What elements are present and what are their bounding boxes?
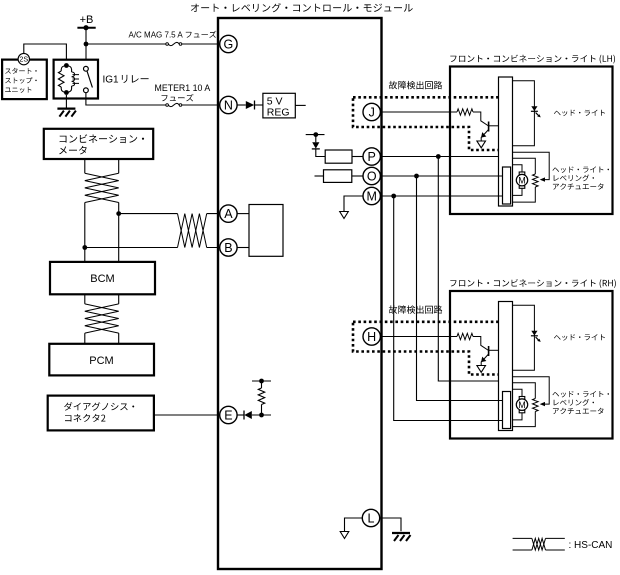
twisted pair (BCM-PCM CAN) (85, 304, 119, 333)
wire R3 to terminal O (352, 175, 363, 177)
svg-text:+B: +B (80, 14, 94, 26)
wire regulator output stub (295, 104, 305, 106)
twisted pair (meter-BCM CAN) (85, 173, 119, 202)
wire diode D1 to regulator box (255, 104, 263, 106)
terminal E (K-line) (220, 406, 237, 423)
wire diode D3 to resistor R2 (316, 149, 325, 157)
terminal B (CAN-L) (220, 239, 237, 256)
wire O to RH actuator (417, 176, 503, 401)
front combination light (LH) assembly (353, 67, 613, 215)
svg-text:O: O (367, 169, 377, 183)
svg-text:H: H (367, 330, 376, 344)
front combination light housing box (450, 67, 613, 215)
terminal G (battery input) (220, 35, 237, 52)
potentiometer loop wiring (513, 158, 536, 202)
relay IG1 box (54, 60, 98, 99)
BCM box (50, 262, 155, 294)
diagnosis connector 2 box (48, 396, 154, 431)
terminal N (ignition input) (220, 96, 237, 113)
node relay coil top (junction dot) (64, 63, 69, 68)
lamp connector strip (499, 77, 513, 206)
relay coil resistor element (58, 71, 64, 87)
wire L to signal ground (345, 518, 363, 532)
wire relay switch to METER1 fuse to terminal N (86, 93, 220, 105)
svg-text:: HS-CAN: : HS-CAN (569, 540, 613, 551)
fault detection dotted outline (353, 97, 504, 150)
relay IG1 switch blade (87, 71, 92, 88)
svg-text:BCM: BCM (90, 273, 114, 285)
label: actuator label line3 アクチュエータ (553, 183, 604, 189)
label: headlight label ヘッド・ライト (554, 110, 605, 117)
wire P to LH lamp (380, 156, 498, 158)
label: fault detection circuit label 故障検出回路 (389, 81, 442, 89)
power +B terminal bar (77, 27, 95, 29)
svg-text:N: N (224, 98, 233, 112)
wire diode D2 to node (252, 414, 271, 416)
twisted pair (to module A/B) (178, 214, 207, 248)
actuator connector block (503, 167, 511, 204)
label: actuator label line1 ヘッド・ライト・ (553, 166, 610, 173)
svg-text:REG: REG (267, 106, 290, 118)
relay coil inductor element (72, 72, 79, 86)
resistor R2 (box style, P) (325, 150, 352, 163)
label: fuse F2 label フューズ (162, 94, 194, 102)
node M branch (junction dot) (391, 194, 396, 199)
label: actuator label line2 レベリング・ (554, 175, 594, 182)
node CAN-L tap (junction dot) (82, 245, 87, 250)
node P branch (junction dot) (436, 154, 441, 159)
front combination light (RH) assembly (same internals as LH) (353, 291, 613, 439)
svg-text:P: P (368, 150, 376, 164)
label: front combination light RH label (450, 279, 616, 288)
label: start-stop unit label line2 ストップ・ (5, 77, 37, 83)
label: start-stop unit label line3 ユニット (5, 87, 31, 93)
label: fuse F1 label フューズ (186, 31, 217, 38)
fuse METER1 10A F2 (166, 103, 182, 106)
wire M to LH actuator (380, 195, 502, 197)
headlight lamp loop wiring (513, 81, 535, 146)
wire CAN to terminal B (85, 247, 220, 249)
ground module chassis ground G2 (chassis 777) (392, 533, 411, 541)
node +B branch to G (junction dot) (84, 42, 89, 47)
node CAN-H tap (junction dot) (116, 211, 121, 216)
terminal J (headlight LH detect) (363, 103, 380, 120)
relay IG1 coil capsule (61, 66, 71, 93)
motor M1 (516, 174, 527, 185)
svg-text:G: G (224, 37, 234, 51)
svg-text:A: A (224, 207, 233, 221)
wire J/H to base resistor (380, 112, 488, 126)
diode D3 (P drive, pointing down) (312, 142, 320, 149)
wire meter to braid rails (85, 159, 119, 262)
wiper feedback wire (513, 152, 550, 179)
label: combination meter label line1 コンビネーション・ (60, 134, 145, 143)
wire B to CAN block (237, 247, 249, 249)
wire stub to resistor R3 (315, 175, 324, 177)
wire O to LH actuator (380, 175, 502, 177)
motor M1 brushes (519, 172, 525, 188)
label: start-stop unit label line1 スタート・ (5, 68, 37, 74)
label: diagnosis box label line2 コネクタ2 (65, 414, 105, 422)
label: diagnosis box label line1 ダイアグノシス・ (64, 402, 134, 411)
wire rail to diode D3 (315, 135, 317, 143)
motor M1 wiring top (513, 165, 523, 196)
wire M to RH actuator (394, 196, 503, 421)
svg-text:B: B (224, 241, 232, 255)
connector 2S circle (18, 53, 29, 64)
wire N to regulator (237, 104, 246, 106)
ground relay ground G1 (chassis 777) (57, 109, 76, 117)
wire P to RH lamp (438, 157, 498, 382)
resistor R1 (E pull-up) (258, 388, 264, 405)
diode D1 (series after N) (246, 101, 255, 110)
label: relay label リレー (122, 75, 149, 83)
wire BCM to braid2 rails (85, 294, 119, 344)
CAN transceiver block (unlabeled box) (249, 205, 283, 257)
terminal M (actuator feedback M) (363, 187, 380, 204)
wiper arrowhead (540, 177, 545, 181)
wire relay coil to ground (65, 95, 67, 108)
regulator U2 5V REG box (263, 93, 295, 118)
wire +B vertical feed (85, 28, 87, 67)
wire E to diode D2 (237, 414, 244, 416)
wire P rail (306, 134, 325, 136)
wire E pull-up rail (252, 380, 271, 382)
wire diagnosis to terminal E (154, 414, 220, 416)
svg-text:M: M (366, 189, 376, 203)
fuse A/C MAG 7.5A F1 (166, 42, 182, 45)
node +B terminal (junction dot) (83, 25, 88, 30)
svg-text:METER1 10 A: METER1 10 A (155, 83, 211, 93)
node E pull-up node (junction dot) (259, 413, 264, 418)
potentiometer resistor element (533, 174, 539, 187)
diode D2 (at E, cathode left) (244, 411, 252, 420)
wire M to signal ground (344, 196, 363, 212)
svg-text:E: E (224, 408, 232, 422)
auto-leveling control module U1 (main box) (218, 18, 382, 569)
resistor R-base (457, 109, 473, 115)
terminal O (actuator drive O) (363, 167, 380, 184)
wire A to CAN block (237, 213, 249, 215)
wire CAN to terminal A (119, 213, 220, 215)
ground M signal ground (open triangle) (340, 212, 349, 219)
start-stop unit box (2, 60, 47, 100)
wire pull-up resistor R1 leads (261, 381, 263, 415)
label: front combination light LH label (450, 55, 615, 64)
svg-text:A/C MAG 7.5 A: A/C MAG 7.5 A (129, 31, 184, 40)
svg-text:L: L (368, 511, 375, 525)
svg-text:M: M (518, 175, 526, 185)
PCM box (49, 344, 154, 376)
svg-text:2S: 2S (19, 55, 28, 64)
node O branch (junction dot) (414, 174, 419, 179)
wire L to chassis ground (380, 518, 401, 531)
svg-text:PCM: PCM (89, 355, 113, 367)
node P rail node (junction dot) (313, 132, 318, 137)
node relay coil bottom (junction dot) (64, 90, 69, 95)
ground L signal ground (open triangle) (340, 532, 349, 539)
terminal L (module ground) (362, 509, 379, 526)
terminal A (CAN-H) (220, 205, 237, 222)
wire R2 to terminal P (352, 156, 363, 158)
transistor Q1 (481, 122, 498, 142)
label: combination meter label line2 メータ (59, 146, 87, 155)
headlight lamp (LED symbol) (531, 106, 541, 117)
wire 2S to relay coil (24, 44, 67, 66)
svg-text:J: J (369, 105, 375, 119)
resistor R3 (box style, O) (324, 170, 352, 183)
relay IG1 switch contacts (84, 66, 89, 92)
HS-CAN legend twisted pair symbol (513, 538, 565, 550)
combination meter box (44, 129, 153, 159)
node E rail node (junction dot) (259, 379, 264, 384)
emitter ground (open triangle) (477, 141, 486, 148)
terminal P (actuator drive P) (363, 148, 380, 165)
svg-text:IG1: IG1 (103, 75, 120, 86)
label: module title オート・レベリング・コントロール・モジュール (191, 3, 413, 12)
wire +B to A/C MAG fuse to terminal G (86, 43, 220, 45)
terminal H (headlight RH detect) (363, 328, 380, 345)
